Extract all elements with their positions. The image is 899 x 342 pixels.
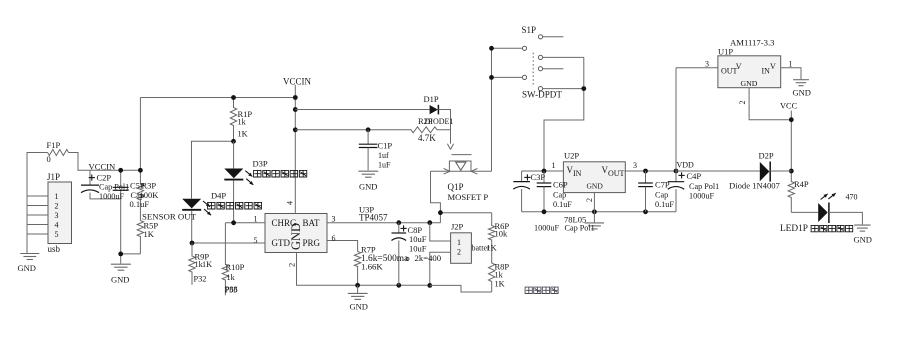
svg-text:Diode 1N4007: Diode 1N4007 (729, 180, 781, 190)
svg-text:C6P: C6P (553, 179, 568, 189)
svg-text:C7P: C7P (655, 179, 670, 189)
svg-text:5: 5 (254, 236, 258, 245)
svg-text:VCC: VCC (780, 101, 798, 110)
svg-text:F1P: F1P (47, 140, 61, 150)
svg-text:GND: GND (350, 302, 368, 312)
svg-text:VCCIN: VCCIN (283, 76, 312, 86)
svg-text:GND: GND (741, 79, 758, 88)
svg-text:P88: P88 (225, 285, 238, 294)
svg-text:2: 2 (738, 101, 747, 105)
svg-text:GND: GND (793, 87, 811, 97)
svg-text:IN: IN (573, 169, 582, 178)
svg-text:1K: 1K (238, 130, 248, 139)
svg-text:1: 1 (552, 161, 556, 170)
svg-text:C4P: C4P (687, 171, 702, 181)
svg-text:R4P: R4P (794, 179, 809, 189)
svg-text:Cap: Cap (655, 190, 668, 199)
svg-text:2: 2 (55, 201, 59, 210)
svg-text:J1P: J1P (47, 172, 60, 182)
svg-text:P32: P32 (194, 274, 207, 283)
svg-text:2: 2 (457, 248, 461, 257)
svg-text:AM1117-3.3: AM1117-3.3 (730, 37, 774, 47)
svg-text:S1P: S1P (522, 25, 537, 35)
svg-text:10uF: 10uF (409, 243, 427, 253)
svg-text:U2P: U2P (564, 150, 579, 160)
svg-text:10k: 10k (495, 229, 509, 239)
svg-text:2: 2 (287, 263, 297, 267)
svg-text:1: 1 (55, 192, 59, 201)
svg-text:5: 5 (55, 230, 59, 239)
svg-text:C1P: C1P (378, 140, 393, 150)
svg-text:1K: 1K (487, 243, 497, 252)
svg-text:Q1P: Q1P (448, 182, 464, 192)
svg-text:1000uF: 1000uF (534, 224, 559, 233)
svg-text:0.1uF: 0.1uF (553, 200, 572, 209)
svg-text:4.7K: 4.7K (418, 133, 436, 143)
svg-text:D4P: D4P (211, 190, 226, 200)
svg-text:LED1P: LED1P (780, 224, 808, 234)
svg-text:GTD: GTD (272, 238, 291, 248)
svg-text:U1P: U1P (718, 46, 733, 56)
svg-text:4: 4 (286, 201, 295, 205)
svg-text:1: 1 (254, 214, 258, 223)
svg-text:VDD: VDD (677, 160, 695, 169)
svg-text:1K: 1K (144, 229, 155, 239)
svg-text:4: 4 (55, 220, 59, 229)
svg-text:1.66K: 1.66K (361, 262, 383, 272)
svg-text:TP4057: TP4057 (359, 213, 388, 223)
svg-text:R10P: R10P (226, 262, 245, 272)
svg-text:GND: GND (587, 182, 604, 191)
svg-text:3: 3 (55, 211, 59, 220)
svg-text:3: 3 (332, 215, 336, 224)
svg-text:D2P: D2P (759, 150, 774, 160)
svg-text:1uf: 1uf (378, 151, 389, 160)
svg-text:0: 0 (47, 154, 51, 164)
svg-text:usb: usb (48, 244, 61, 254)
svg-text:1000uF: 1000uF (689, 192, 714, 201)
svg-text:1000uF: 1000uF (99, 192, 124, 201)
svg-text:470: 470 (846, 192, 858, 201)
svg-text:GND: GND (18, 263, 36, 273)
svg-text:MOSFET P: MOSFET P (448, 192, 489, 202)
svg-text:1: 1 (789, 60, 793, 69)
svg-text:V: V (770, 62, 776, 71)
svg-text:C2P: C2P (97, 172, 112, 182)
svg-text:2k=400: 2k=400 (415, 253, 442, 263)
svg-text:Cap Pol1: Cap Pol1 (689, 182, 719, 191)
svg-text:1k: 1k (238, 118, 247, 127)
svg-text:V: V (736, 62, 742, 71)
svg-text:2: 2 (585, 198, 594, 202)
svg-text:R7P: R7P (361, 244, 376, 254)
svg-text:BAT: BAT (303, 218, 321, 228)
svg-text:0.1uF: 0.1uF (130, 199, 150, 209)
svg-text:OUT: OUT (608, 169, 625, 178)
svg-text:D1P: D1P (424, 94, 439, 104)
svg-text:SW-DPDT: SW-DPDT (522, 89, 562, 99)
svg-text:PRG: PRG (303, 238, 321, 248)
svg-text:0.1uF: 0.1uF (655, 200, 674, 209)
svg-text:1k: 1k (495, 271, 504, 280)
svg-text:C3P: C3P (531, 172, 546, 182)
svg-text:GND: GND (289, 223, 303, 250)
svg-text:GND: GND (854, 234, 872, 244)
svg-text:1uF: 1uF (378, 160, 391, 169)
svg-text:1K: 1K (495, 280, 505, 289)
svg-text:1: 1 (457, 238, 461, 247)
svg-text:DIODE1: DIODE1 (425, 117, 454, 126)
svg-text:D3P: D3P (253, 158, 268, 168)
svg-text:IN: IN (762, 66, 771, 75)
svg-text:3: 3 (633, 161, 637, 170)
svg-text:Cap Pol1: Cap Pol1 (565, 224, 595, 233)
svg-text:VCCIN: VCCIN (89, 161, 117, 171)
svg-text:GND: GND (111, 275, 129, 285)
svg-text:R3P: R3P (142, 181, 157, 191)
svg-text:Cap Pol1: Cap Pol1 (99, 183, 129, 192)
svg-text:6: 6 (332, 234, 336, 243)
svg-text:J2P: J2P (451, 221, 464, 231)
svg-text:3: 3 (705, 60, 709, 69)
svg-text:1K: 1K (202, 260, 212, 269)
svg-text:Cap: Cap (553, 190, 566, 199)
svg-text:1k: 1k (227, 273, 236, 282)
svg-text:GND: GND (359, 181, 377, 191)
